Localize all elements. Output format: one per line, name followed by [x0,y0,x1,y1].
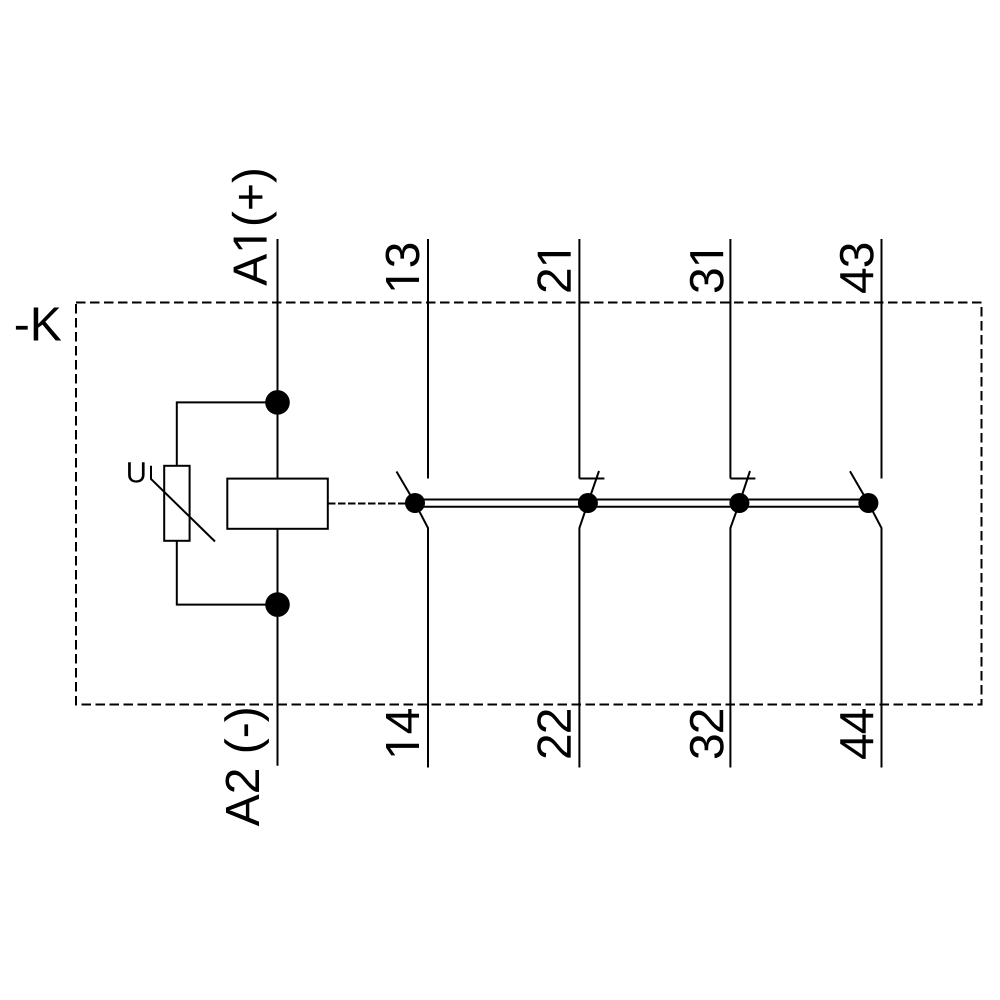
wire varistor branch bottom [177,541,278,605]
junction dot A2/varistor node [265,592,290,617]
varistor symbol diagonal with tick [151,466,215,542]
NC stop bar 31 [730,478,755,480]
coil K1 body [227,479,327,529]
label 44 [840,709,873,759]
dashed actuator link from coil [328,503,413,505]
contact NC blade 21-22 [588,471,599,503]
wire varistor branch top [177,402,278,465]
label 13 [386,244,420,290]
label 22 [537,710,571,758]
wire terminal lead 31 [729,239,731,479]
label 21 [537,252,571,292]
contact NC blade 31-32 [739,471,750,503]
contact NO blade 13-14 [397,472,416,504]
mechanical linkage lower line [415,506,868,508]
wire coil bottom to A2 terminal [277,529,279,766]
wire terminal lead 22 [579,503,588,768]
wire terminal lead 21 [578,239,580,479]
contact pivot dot 13-14 [405,493,425,513]
label 32 [690,710,724,758]
label 14 [386,709,419,755]
contact pivot dot 31-32 [729,493,749,513]
contact pivot dot 21-22 [578,493,598,513]
wire terminal lead 43 [881,239,883,479]
junction dot A1/varistor node [265,390,290,415]
wire terminal lead 14 [415,503,428,768]
label -K [16,308,61,341]
label 43 [840,244,874,293]
varistor RU body [164,466,189,541]
contact pivot dot 43-44 [858,493,878,513]
wire terminal lead 44 [868,503,881,768]
mechanical linkage upper line [415,499,868,501]
NC stop bar 21 [579,478,604,480]
wire A1 terminal lead [277,239,279,479]
terminal A1 label [232,170,277,286]
wire terminal lead 13 [427,239,429,479]
label U (varistor voltage) [128,462,145,482]
contact NO blade 43-44 [850,471,868,503]
label 31 [690,252,724,292]
terminal A2 label [224,709,269,826]
wire terminal lead 32 [730,503,739,768]
relay -K boundary (dashed outline) [76,303,982,705]
